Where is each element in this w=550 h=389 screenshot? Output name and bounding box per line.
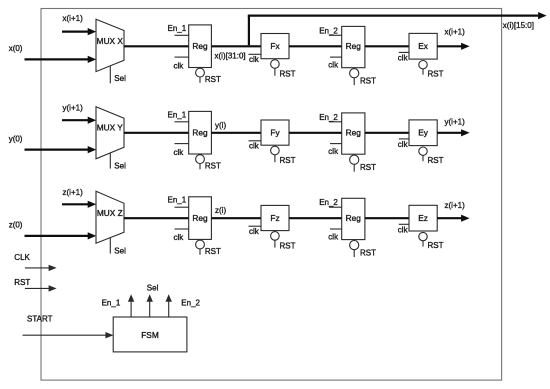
svg-text:Ex: Ex [418, 41, 429, 51]
svg-text:clk: clk [398, 226, 409, 235]
svg-text:MUX Y: MUX Y [97, 123, 124, 133]
svg-text:clk: clk [328, 147, 339, 156]
svg-text:x(i+1): x(i+1) [445, 27, 466, 36]
svg-text:clk: clk [249, 55, 260, 64]
svg-text:y(i+1): y(i+1) [445, 117, 466, 126]
svg-text:MUX X: MUX X [97, 36, 124, 46]
svg-text:RST: RST [428, 156, 444, 165]
svg-text:RST: RST [280, 70, 296, 79]
svg-text:RST: RST [14, 278, 30, 287]
svg-text:En_1: En_1 [102, 298, 121, 307]
svg-text:y(0): y(0) [9, 135, 23, 144]
svg-text:z(i): z(i) [215, 206, 226, 215]
svg-text:Reg: Reg [346, 128, 362, 138]
svg-text:Ey: Ey [418, 128, 429, 138]
svg-text:Sel: Sel [114, 74, 126, 83]
svg-text:clk: clk [398, 140, 409, 149]
svg-text:clk: clk [249, 141, 260, 150]
svg-text:RST: RST [205, 162, 221, 171]
svg-text:x(0): x(0) [9, 44, 23, 53]
svg-text:En_2: En_2 [319, 198, 338, 207]
svg-text:Sel: Sel [114, 161, 126, 170]
svg-text:START: START [27, 315, 53, 324]
svg-text:En_2: En_2 [181, 298, 200, 307]
svg-text:RST: RST [280, 156, 296, 165]
svg-text:y(i): y(i) [215, 121, 226, 130]
svg-text:RST: RST [360, 163, 376, 172]
svg-text:Sel: Sel [147, 284, 159, 293]
svg-text:z(0): z(0) [9, 221, 23, 230]
svg-text:Sel: Sel [114, 246, 126, 255]
svg-text:Fz: Fz [270, 213, 279, 223]
svg-text:RST: RST [205, 75, 221, 84]
svg-text:z(i+1): z(i+1) [445, 201, 466, 210]
svg-text:Reg: Reg [192, 127, 208, 137]
svg-text:RST: RST [280, 242, 296, 251]
svg-text:RST: RST [360, 249, 376, 258]
svg-text:x(i+1): x(i+1) [63, 14, 84, 23]
svg-text:Reg: Reg [192, 41, 208, 51]
svg-text:Reg: Reg [346, 41, 362, 51]
svg-text:En_2: En_2 [319, 26, 338, 35]
svg-text:y(i+1): y(i+1) [63, 104, 84, 113]
svg-text:En_1: En_1 [168, 110, 187, 119]
svg-text:RST: RST [205, 247, 221, 256]
svg-text:En_2: En_2 [319, 113, 338, 122]
svg-text:En_1: En_1 [168, 196, 187, 205]
svg-text:clk: clk [174, 233, 185, 242]
svg-text:Reg: Reg [346, 213, 362, 223]
svg-text:RST: RST [428, 69, 444, 78]
svg-text:x(i)[15:0]: x(i)[15:0] [503, 21, 534, 30]
svg-text:clk: clk [328, 61, 339, 70]
svg-text:RST: RST [428, 241, 444, 250]
svg-text:RST: RST [360, 77, 376, 86]
svg-text:clk: clk [398, 54, 409, 63]
svg-text:Ez: Ez [418, 213, 428, 223]
svg-text:clk: clk [174, 148, 185, 157]
svg-text:MUX Z: MUX Z [97, 208, 123, 218]
svg-text:clk: clk [249, 227, 260, 236]
svg-text:clk: clk [328, 232, 339, 241]
svg-text:Reg: Reg [192, 213, 208, 223]
svg-text:x(i)[31:0]: x(i)[31:0] [215, 52, 246, 61]
svg-text:CLK: CLK [14, 253, 30, 262]
svg-text:Fy: Fy [270, 128, 280, 138]
svg-text:clk: clk [174, 61, 185, 70]
svg-text:z(i+1): z(i+1) [63, 188, 84, 197]
svg-text:En_1: En_1 [168, 24, 187, 33]
svg-text:Fx: Fx [270, 41, 280, 51]
svg-text:FSM: FSM [141, 330, 159, 340]
